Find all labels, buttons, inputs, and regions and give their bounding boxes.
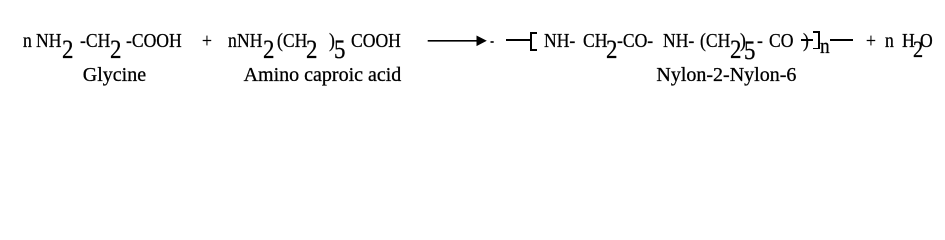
strike bond through close paren xyxy=(801,39,814,41)
polymer repeat unit text xyxy=(544,31,575,51)
polymer right bond xyxy=(830,39,853,41)
label amino caproic acid xyxy=(244,65,402,85)
plus n H2O xyxy=(866,31,876,51)
polymer close bracket ] xyxy=(818,31,820,49)
label glycine xyxy=(83,65,146,85)
reactant 2: amino caproic acid formula n NH2 (CH2)5 COOH xyxy=(228,31,237,51)
polymer left bond xyxy=(506,39,531,41)
polymer open bracket [ xyxy=(530,32,532,51)
reaction arrow xyxy=(427,34,495,48)
reactant 1: glycine formula n NH2-CH2-COOH xyxy=(23,31,32,51)
label nylon-2-nylon-6 xyxy=(656,65,796,85)
subscript n xyxy=(820,35,830,57)
plus sign xyxy=(202,31,212,51)
